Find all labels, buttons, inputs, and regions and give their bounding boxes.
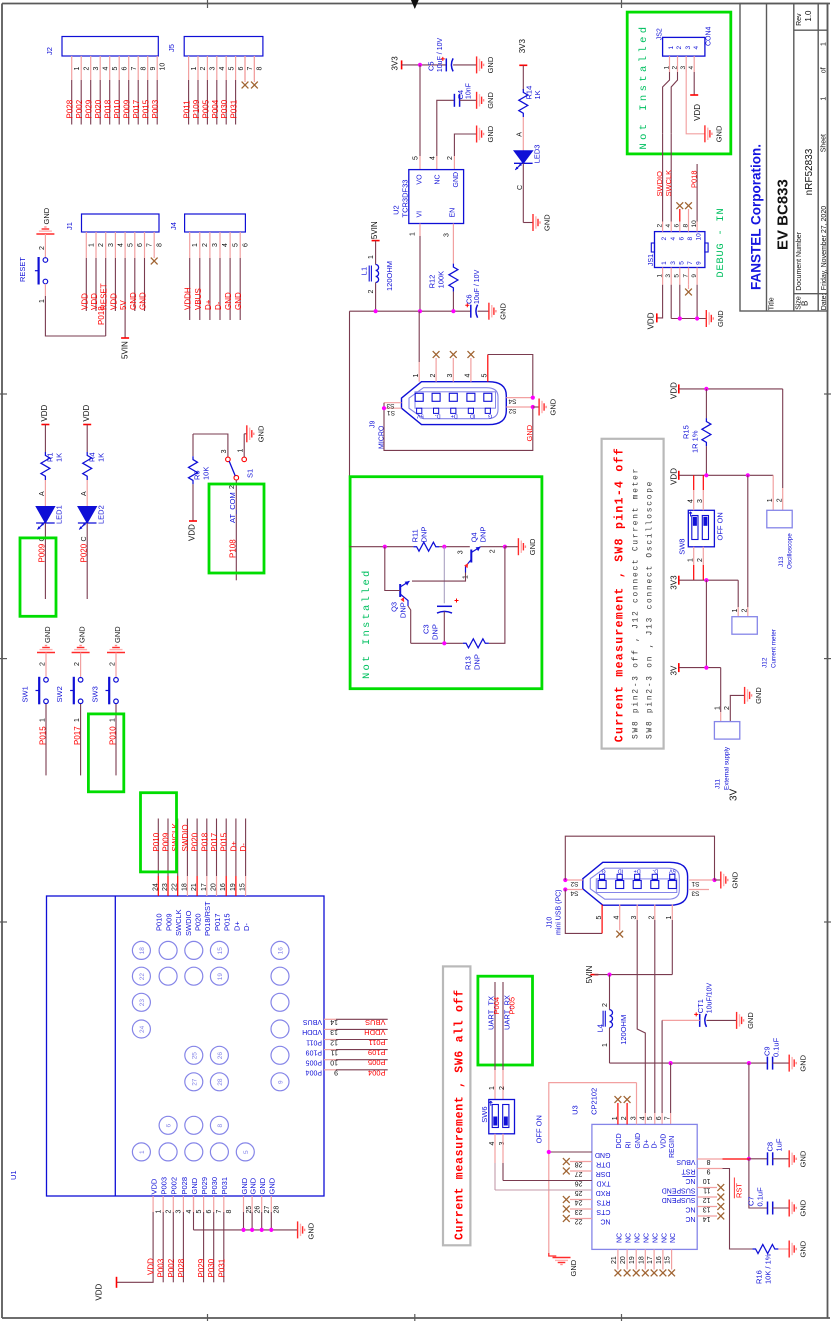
svg-text:C6: C6 bbox=[465, 294, 474, 304]
svg-text:nRF52833: nRF52833 bbox=[804, 148, 815, 195]
svg-text:8: 8 bbox=[687, 237, 694, 241]
svg-text:P005: P005 bbox=[508, 997, 517, 1015]
svg-text:NC: NC bbox=[616, 1233, 623, 1243]
svg-text:P004: P004 bbox=[368, 1068, 386, 1077]
wire C8 to GND bbox=[773, 1158, 790, 1160]
J9 pin2 no-connect bbox=[435, 358, 437, 382]
J2 pin 7 stub bbox=[128, 56, 130, 80]
svg-text:4: 4 bbox=[186, 1210, 193, 1214]
svg-text:6: 6 bbox=[137, 243, 144, 247]
module U1 outline bbox=[47, 896, 325, 1196]
svg-text:REGIN: REGIN bbox=[669, 1136, 676, 1158]
svg-text:GND: GND bbox=[799, 1150, 808, 1167]
svg-text:3V3: 3V3 bbox=[391, 56, 400, 71]
ground symbol at JS1 bbox=[706, 310, 713, 327]
svg-text:NC: NC bbox=[685, 1205, 695, 1212]
svg-text:5VIN: 5VIN bbox=[585, 965, 594, 983]
svg-text:5: 5 bbox=[228, 67, 235, 71]
svg-text:VDD: VDD bbox=[95, 1283, 104, 1300]
svg-text:4: 4 bbox=[429, 156, 436, 160]
J2 pin 1 stub bbox=[71, 56, 73, 80]
svg-text:GND: GND bbox=[139, 292, 148, 310]
svg-text:15: 15 bbox=[217, 947, 224, 955]
svg-text:GND: GND bbox=[453, 172, 460, 188]
svg-text:3: 3 bbox=[697, 499, 704, 503]
wire R4 to LED2 anode bbox=[86, 480, 88, 507]
wire C6 to GND bbox=[478, 310, 489, 312]
svg-text:4: 4 bbox=[102, 67, 109, 71]
svg-text:VDD: VDD bbox=[82, 404, 91, 421]
svg-text:3: 3 bbox=[458, 550, 465, 554]
svg-text:GND: GND bbox=[486, 125, 495, 142]
wire SW3 pin2 to GND bbox=[115, 653, 117, 678]
svg-text:1: 1 bbox=[820, 42, 827, 46]
U2 pin4 NC wire to C4 bbox=[436, 156, 438, 170]
svg-text:C3: C3 bbox=[422, 624, 431, 634]
svg-text:C8: C8 bbox=[766, 1142, 775, 1152]
svg-text:120OHM: 120OHM bbox=[385, 261, 394, 291]
svg-text:P031: P031 bbox=[220, 1177, 229, 1195]
svg-text:18: 18 bbox=[139, 947, 146, 955]
svg-text:P030: P030 bbox=[220, 99, 229, 118]
wire R11 to Q4 base bbox=[439, 546, 469, 548]
svg-text:2: 2 bbox=[229, 485, 236, 489]
U1 pad circle 5 bbox=[236, 1143, 254, 1161]
svg-text:P010: P010 bbox=[113, 99, 122, 118]
J9 pin4 no-connect bbox=[470, 358, 472, 382]
wire 3V rail to J11 pin1 bbox=[720, 668, 722, 713]
U3 pin2 no-connect bbox=[626, 1103, 628, 1124]
svg-text:P010: P010 bbox=[152, 832, 161, 851]
power port VDD at U1 bbox=[116, 1277, 118, 1288]
wire CT1 to U3 VDD pin6 bbox=[662, 1019, 700, 1021]
U1 pin 22 (SWCLK) top bbox=[177, 876, 179, 896]
connector J9 MICRO USB bbox=[402, 382, 507, 425]
svg-text:GND: GND bbox=[799, 1199, 808, 1216]
capacitor C5 bbox=[445, 58, 447, 71]
U1 pad circle 8 bbox=[210, 1116, 228, 1134]
wire 5VIN to L4 bbox=[609, 975, 611, 1010]
wire U3 GND pad to ground route bbox=[549, 1151, 592, 1153]
U1 pin 3 (P002) bbox=[172, 1196, 174, 1212]
connector J13 Oscilloscope bbox=[767, 510, 792, 528]
svg-text:P017: P017 bbox=[132, 99, 141, 118]
svg-text:2: 2 bbox=[83, 67, 90, 71]
svg-text:3: 3 bbox=[93, 67, 100, 71]
U2 pin2 GND wire bbox=[453, 156, 455, 170]
svg-text:C: C bbox=[81, 536, 88, 541]
svg-text:3V3: 3V3 bbox=[669, 575, 678, 590]
power port VDD below R6 bbox=[189, 520, 197, 522]
svg-text:C4: C4 bbox=[456, 90, 465, 100]
svg-text:VDD: VDD bbox=[660, 1134, 667, 1149]
svg-text:L1: L1 bbox=[360, 267, 369, 275]
svg-text:6: 6 bbox=[678, 237, 685, 241]
J1 pin 2 stub bbox=[95, 232, 97, 258]
svg-text:7: 7 bbox=[131, 67, 138, 71]
svg-text:GND: GND bbox=[543, 214, 552, 231]
svg-text:RST: RST bbox=[681, 1167, 696, 1174]
svg-text:P020: P020 bbox=[191, 832, 200, 851]
svg-text:1: 1 bbox=[663, 66, 670, 70]
svg-text:1: 1 bbox=[688, 558, 695, 562]
wire SW6 pin3 to U3 TXD bbox=[502, 1134, 504, 1163]
U1 pin 4 (P028) bbox=[182, 1196, 184, 1212]
svg-text:P010: P010 bbox=[109, 726, 118, 745]
U1 pad circle nc bbox=[185, 1143, 203, 1161]
J9 shield loop wire bbox=[384, 403, 533, 451]
U1 pin 5 (GND) bbox=[193, 1196, 195, 1212]
wire net P004 (J5) bbox=[216, 80, 218, 125]
transistor Q4 (DNP) bbox=[470, 550, 472, 563]
svg-text:Sheet: Sheet bbox=[820, 134, 827, 152]
svg-text:18: 18 bbox=[638, 1256, 645, 1264]
svg-text:1: 1 bbox=[767, 498, 774, 502]
svg-text:C5: C5 bbox=[427, 61, 436, 71]
svg-text:S3: S3 bbox=[691, 890, 699, 897]
note box: Current measurement SW8 bbox=[602, 439, 664, 749]
svg-text:2: 2 bbox=[74, 662, 81, 666]
svg-text:4: 4 bbox=[639, 1116, 646, 1120]
svg-text:D-: D- bbox=[651, 1140, 658, 1148]
svg-text:19: 19 bbox=[629, 1256, 636, 1264]
J10 pad ID bbox=[616, 881, 624, 889]
J10 pin3 D+ wire to U3 bbox=[636, 905, 638, 920]
capacitor C9 bbox=[766, 1057, 768, 1070]
switch SW6 bbox=[489, 1100, 515, 1134]
svg-text:P109: P109 bbox=[368, 1048, 386, 1057]
U1 pad circle nc bbox=[271, 967, 289, 985]
svg-text:P015: P015 bbox=[220, 832, 229, 851]
J10 pad D- bbox=[651, 881, 659, 889]
wire C7 to GND bbox=[773, 1207, 790, 1209]
pushbutton RESET bbox=[43, 258, 48, 263]
U1 pad circle nc bbox=[271, 1046, 289, 1064]
resistor R16 bbox=[752, 1245, 778, 1254]
svg-text:3V: 3V bbox=[729, 788, 740, 801]
svg-text:8: 8 bbox=[140, 67, 147, 71]
U1 pin 15 (D-) top bbox=[245, 876, 247, 896]
svg-text:P003: P003 bbox=[157, 1258, 166, 1277]
svg-text:VO: VO bbox=[417, 174, 424, 185]
svg-text:P015: P015 bbox=[142, 99, 151, 118]
ground symbol above SW3 bbox=[107, 646, 125, 653]
wire J12 pin1 stub bbox=[737, 607, 739, 617]
LED LED2 bbox=[78, 507, 97, 524]
svg-text:P029: P029 bbox=[197, 1258, 206, 1277]
wire net P018 (J2) bbox=[109, 80, 111, 125]
wire L4 to REGIN bus bbox=[609, 1028, 611, 1063]
svg-text:Rev: Rev bbox=[796, 13, 803, 26]
green highlight box around P108 AT_COM bbox=[209, 484, 264, 573]
wire Q4 emitter to Q3 collector bbox=[412, 573, 466, 582]
J9 pin3 no-connect bbox=[452, 358, 454, 382]
resistor R15 bbox=[705, 389, 707, 418]
svg-text:7: 7 bbox=[665, 1116, 672, 1120]
svg-text:P031: P031 bbox=[217, 1258, 226, 1277]
svg-text:GND: GND bbox=[42, 207, 51, 224]
svg-text:9: 9 bbox=[150, 67, 157, 71]
J9 right shield stubs S4 S2 bbox=[506, 397, 531, 399]
U1 pin 10 (P005) bbox=[324, 1059, 336, 1061]
svg-text:3V: 3V bbox=[669, 665, 678, 675]
svg-text:P015: P015 bbox=[39, 726, 48, 745]
svg-text:GND: GND bbox=[746, 1012, 755, 1029]
svg-text:2: 2 bbox=[661, 237, 668, 241]
svg-text:LED3: LED3 bbox=[533, 145, 542, 164]
resistor R4 bbox=[83, 452, 92, 480]
svg-text:Document Number: Document Number bbox=[796, 231, 803, 290]
ground symbol above SW2 bbox=[72, 646, 90, 653]
wire R1 to LED1 anode bbox=[44, 480, 46, 507]
svg-text:1: 1 bbox=[715, 706, 722, 710]
svg-text:TXD: TXD bbox=[597, 1179, 611, 1186]
ground symbol above RESET button bbox=[36, 227, 54, 234]
U1 pad circle nc bbox=[185, 1116, 203, 1134]
wire net VBUS (U1 bottom) bbox=[336, 1018, 388, 1020]
svg-text:24: 24 bbox=[139, 1025, 146, 1033]
svg-text:5: 5 bbox=[112, 67, 119, 71]
LED LED3 bbox=[514, 151, 533, 164]
J2 pin 6 stub bbox=[118, 56, 120, 80]
switch SW8 bbox=[688, 510, 714, 547]
svg-text:2: 2 bbox=[200, 67, 207, 71]
wire net P005 (J5) bbox=[206, 80, 208, 125]
U3 SUSPEND overbars bbox=[668, 1195, 696, 1197]
svg-text:4: 4 bbox=[222, 243, 229, 247]
svg-text:P018: P018 bbox=[200, 832, 209, 851]
wire net P002 (U1) bbox=[172, 1212, 174, 1282]
wire SW2 pin2 to GND bbox=[80, 653, 82, 678]
U1 pad circle 23 bbox=[132, 993, 150, 1011]
svg-text:1: 1 bbox=[156, 1210, 163, 1214]
U3 RST wire to R16 bbox=[697, 1168, 722, 1170]
svg-text:GND: GND bbox=[256, 425, 265, 442]
svg-text:SWDIO: SWDIO bbox=[184, 910, 193, 936]
svg-text:J1: J1 bbox=[65, 222, 74, 230]
ground symbol at S1 bbox=[247, 425, 254, 442]
svg-text:GND: GND bbox=[498, 302, 507, 319]
U1 pin 27 (GND) bbox=[261, 1196, 263, 1212]
J1 pin 1 stub bbox=[85, 232, 87, 258]
wire VDD to R1 bbox=[44, 425, 46, 453]
connector J11 External supply bbox=[714, 722, 739, 740]
U1 pin 28 (GND) bbox=[270, 1196, 272, 1212]
svg-text:J4: J4 bbox=[169, 222, 178, 230]
svg-text:5: 5 bbox=[232, 243, 239, 247]
svg-text:P029: P029 bbox=[85, 99, 94, 118]
capacitor C3 DNP bbox=[437, 605, 452, 607]
junction on U1 ground bus bbox=[260, 1228, 264, 1232]
wire SWCLK JS2-JS1 bbox=[670, 134, 672, 222]
wire net P020 (U1 top) bbox=[196, 819, 198, 877]
svg-text:DNP: DNP bbox=[420, 527, 429, 543]
J9 pin5 shield wire bbox=[487, 355, 489, 382]
svg-text:P003: P003 bbox=[160, 1177, 169, 1195]
junction on U1 ground bus bbox=[269, 1228, 273, 1232]
svg-text:VDD: VDD bbox=[147, 1258, 156, 1275]
svg-text:7: 7 bbox=[247, 66, 254, 70]
svg-text:GND: GND bbox=[730, 871, 739, 888]
wire net P015 (U1 top) bbox=[225, 819, 227, 877]
svg-text:10nF: 10nF bbox=[466, 83, 473, 99]
svg-text:1K: 1K bbox=[55, 453, 64, 462]
svg-text:8: 8 bbox=[257, 67, 264, 71]
wire net 5V (J1 pin 5) bbox=[124, 258, 126, 338]
svg-text:P030: P030 bbox=[210, 1177, 219, 1195]
svg-text:VDD: VDD bbox=[647, 312, 656, 329]
svg-text:P005: P005 bbox=[368, 1058, 386, 1067]
U1 pin 12 (P011) bbox=[324, 1039, 336, 1041]
wire L1 to 5VIN bus bbox=[375, 283, 377, 312]
svg-text:ID: ID bbox=[470, 413, 476, 419]
connector JS1 bbox=[655, 232, 705, 268]
wire SW6 pin4 to U3 RXD bbox=[494, 1134, 496, 1163]
svg-text:CP2102: CP2102 bbox=[590, 1088, 599, 1115]
svg-text:1.0: 1.0 bbox=[804, 10, 813, 22]
svg-text:2: 2 bbox=[40, 662, 47, 666]
svg-text:8: 8 bbox=[226, 1210, 233, 1214]
wire JS2 pin2 to SWCLK bbox=[671, 72, 677, 134]
svg-text:P020: P020 bbox=[94, 99, 103, 118]
svg-text:P029: P029 bbox=[200, 1177, 209, 1195]
svg-text:S3: S3 bbox=[386, 402, 394, 409]
svg-text:27: 27 bbox=[264, 1206, 271, 1214]
wire U2 pin5 VO up to 3V3 rail bbox=[419, 65, 421, 156]
U1 pin 25 (GND) bbox=[243, 1196, 245, 1212]
svg-text:3: 3 bbox=[210, 67, 217, 71]
svg-text:SWDIO: SWDIO bbox=[655, 171, 664, 197]
wire LED2 cathode net P020 bbox=[86, 523, 88, 599]
svg-text:2: 2 bbox=[447, 156, 454, 160]
wire Q4 collector to GND node bbox=[481, 546, 505, 548]
wire VBUS node down to C7 bbox=[749, 1159, 768, 1208]
svg-text:D+: D+ bbox=[232, 921, 241, 931]
svg-text:22: 22 bbox=[172, 883, 179, 891]
svg-text:9: 9 bbox=[691, 274, 698, 278]
wire net VDD (J1 pin 4) bbox=[114, 258, 116, 311]
J5 pin 6 stub bbox=[235, 56, 237, 80]
svg-text:3: 3 bbox=[108, 243, 115, 247]
junction dots on 5VIN bus bbox=[374, 309, 378, 313]
svg-text:28: 28 bbox=[217, 1078, 224, 1086]
U1 pad circle 18 bbox=[132, 941, 150, 959]
svg-text:7: 7 bbox=[147, 243, 154, 247]
svg-text:GND: GND bbox=[754, 687, 763, 704]
wire rail to J13 pin2 bbox=[782, 389, 784, 488]
svg-text:3: 3 bbox=[176, 1210, 183, 1214]
svg-text:C9: C9 bbox=[763, 1046, 772, 1056]
pushbutton SW2 bbox=[78, 678, 83, 683]
svg-text:1: 1 bbox=[668, 46, 675, 50]
svg-text:3: 3 bbox=[221, 449, 228, 453]
svg-text:0.1uF: 0.1uF bbox=[756, 1187, 765, 1207]
svg-text:10: 10 bbox=[696, 233, 703, 241]
svg-text:VDD: VDD bbox=[669, 468, 678, 485]
wire net P003 (J2) bbox=[156, 80, 158, 125]
wire net P030 (J5) bbox=[225, 80, 227, 125]
J2 pin 4 stub bbox=[99, 56, 101, 80]
ground symbol at C4 bbox=[477, 92, 484, 109]
capacitor C8 bbox=[767, 1152, 769, 1165]
svg-text:SW6: SW6 bbox=[480, 1106, 489, 1122]
svg-text:SUSPEND: SUSPEND bbox=[662, 1186, 696, 1193]
U2 pin1 VI wire down to 5VIN bus bbox=[419, 224, 421, 237]
svg-text:S2: S2 bbox=[570, 880, 578, 887]
svg-text:D-: D- bbox=[239, 843, 248, 852]
svg-text:U3: U3 bbox=[571, 1105, 580, 1115]
svg-text:3: 3 bbox=[680, 66, 687, 70]
junction dots J9 shields bbox=[382, 406, 386, 410]
svg-text:NC: NC bbox=[661, 1233, 668, 1243]
svg-text:U1: U1 bbox=[9, 1170, 18, 1180]
svg-text:2: 2 bbox=[368, 290, 375, 294]
svg-text:5: 5 bbox=[413, 156, 420, 160]
svg-text:P005: P005 bbox=[201, 99, 210, 118]
svg-text:1: 1 bbox=[74, 67, 81, 71]
wire net P030 (U1) bbox=[213, 1212, 215, 1282]
SW8 pin2 stub bbox=[702, 547, 704, 565]
svg-text:10: 10 bbox=[159, 63, 166, 71]
svg-text:CT1: CT1 bbox=[696, 999, 705, 1013]
wire net P011 (U1 bottom) bbox=[336, 1039, 388, 1041]
U1 pad circle nc bbox=[159, 967, 177, 985]
J5 pin 7 no-connect X bbox=[244, 56, 246, 82]
svg-text:10K: 10K bbox=[202, 467, 211, 480]
svg-text:R15: R15 bbox=[682, 425, 691, 439]
svg-text:NC: NC bbox=[685, 1177, 695, 1184]
svg-text:VDD: VDD bbox=[188, 524, 197, 541]
svg-text:2: 2 bbox=[98, 243, 105, 247]
J1 pin 7 stub bbox=[144, 232, 146, 258]
U1 pad circle nc bbox=[185, 941, 203, 959]
J4 pin 2 stub bbox=[199, 232, 201, 258]
JS1 ground bus wire bbox=[671, 285, 697, 319]
JS1 pin10 wire net P018 bbox=[696, 164, 698, 222]
pushbutton SW1 bbox=[44, 678, 49, 683]
J2 pin 5 stub bbox=[109, 56, 111, 80]
wire R6 bottom to VDD bbox=[192, 484, 194, 521]
J4 pin 1 stub bbox=[189, 232, 191, 258]
wire U3 TXD to SW6 pin3 bbox=[503, 1180, 592, 1182]
svg-text:2: 2 bbox=[39, 246, 46, 250]
wire net P010 (U1 top) bbox=[157, 819, 159, 877]
svg-text:A: A bbox=[517, 132, 524, 137]
wire net VBUS (J4) bbox=[199, 258, 201, 320]
svg-text:P017: P017 bbox=[73, 726, 82, 745]
svg-text:S4: S4 bbox=[508, 398, 516, 405]
wire net P028 (U1) bbox=[182, 1212, 184, 1282]
wire S1 pin1 to GND bbox=[243, 434, 245, 457]
svg-text:19: 19 bbox=[230, 883, 237, 891]
wire net P017 (U1 top) bbox=[216, 819, 218, 877]
svg-text:RXD: RXD bbox=[596, 1189, 611, 1196]
svg-text:GND: GND bbox=[714, 125, 723, 142]
ground symbol at J9 shield bbox=[533, 406, 539, 408]
wire net P002 (J2) bbox=[80, 80, 82, 125]
svg-text:6: 6 bbox=[238, 67, 245, 71]
green Not Installed box (transistor circuit) bbox=[350, 477, 542, 689]
U1 pin 9 (P004) bbox=[324, 1069, 336, 1071]
svg-text:25: 25 bbox=[191, 1052, 198, 1060]
svg-text:3: 3 bbox=[665, 274, 672, 278]
svg-text:mini USB (PC): mini USB (PC) bbox=[556, 889, 563, 935]
U1 pin5 GND stub to bus bbox=[193, 1212, 195, 1230]
power port VDD (top rail) bbox=[678, 384, 680, 393]
svg-text:24: 24 bbox=[152, 883, 159, 891]
J9 pad 5V bbox=[415, 393, 423, 401]
U1 pad circle nc bbox=[185, 967, 203, 985]
